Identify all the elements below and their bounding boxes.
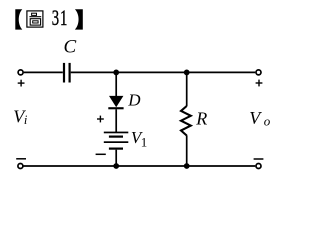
svg-text:C: C bbox=[64, 37, 77, 58]
capacitor C bbox=[63, 63, 71, 83]
polarity minus battery bbox=[96, 153, 106, 155]
node junction bottom resistor branch bbox=[184, 163, 190, 169]
node junction top diode branch bbox=[113, 70, 119, 76]
wire diode branch upper bbox=[115, 72, 117, 96]
terminal output bottom bbox=[256, 164, 261, 169]
wire diode to battery bbox=[115, 109, 117, 132]
svg-text:R: R bbox=[195, 109, 207, 129]
svg-text:o: o bbox=[264, 114, 271, 129]
node junction bottom diode branch bbox=[113, 163, 119, 169]
wire top-right segment bbox=[187, 71, 256, 73]
figure title glyph 圖 bbox=[27, 11, 43, 27]
wire bottom bbox=[24, 165, 256, 167]
terminal input top bbox=[18, 70, 23, 75]
wire top-middle segment bbox=[71, 71, 187, 73]
polarity minus input bbox=[16, 158, 26, 160]
figure title bracket left 【 bbox=[15, 9, 22, 29]
svg-text:31: 31 bbox=[52, 6, 69, 31]
terminal input bottom bbox=[18, 164, 23, 169]
polarity plus input bbox=[18, 80, 25, 87]
node junction top resistor branch bbox=[184, 70, 190, 76]
figure title bracket right 】 bbox=[75, 9, 83, 29]
polarity minus output bbox=[254, 158, 264, 160]
wire battery to bottom bbox=[115, 150, 117, 166]
wire resistor branch upper bbox=[186, 72, 188, 106]
terminal output top bbox=[256, 70, 261, 75]
svg-text:1: 1 bbox=[141, 134, 148, 149]
svg-text:i: i bbox=[24, 113, 28, 127]
battery V1 bbox=[104, 132, 129, 150]
polarity plus output bbox=[256, 80, 263, 87]
svg-text:D: D bbox=[127, 91, 141, 110]
polarity plus battery bbox=[97, 116, 104, 123]
resistor R zigzag bbox=[181, 106, 191, 136]
diode D bbox=[108, 96, 123, 109]
wire resistor to bottom bbox=[186, 135, 188, 166]
wire top-left segment bbox=[24, 71, 63, 73]
